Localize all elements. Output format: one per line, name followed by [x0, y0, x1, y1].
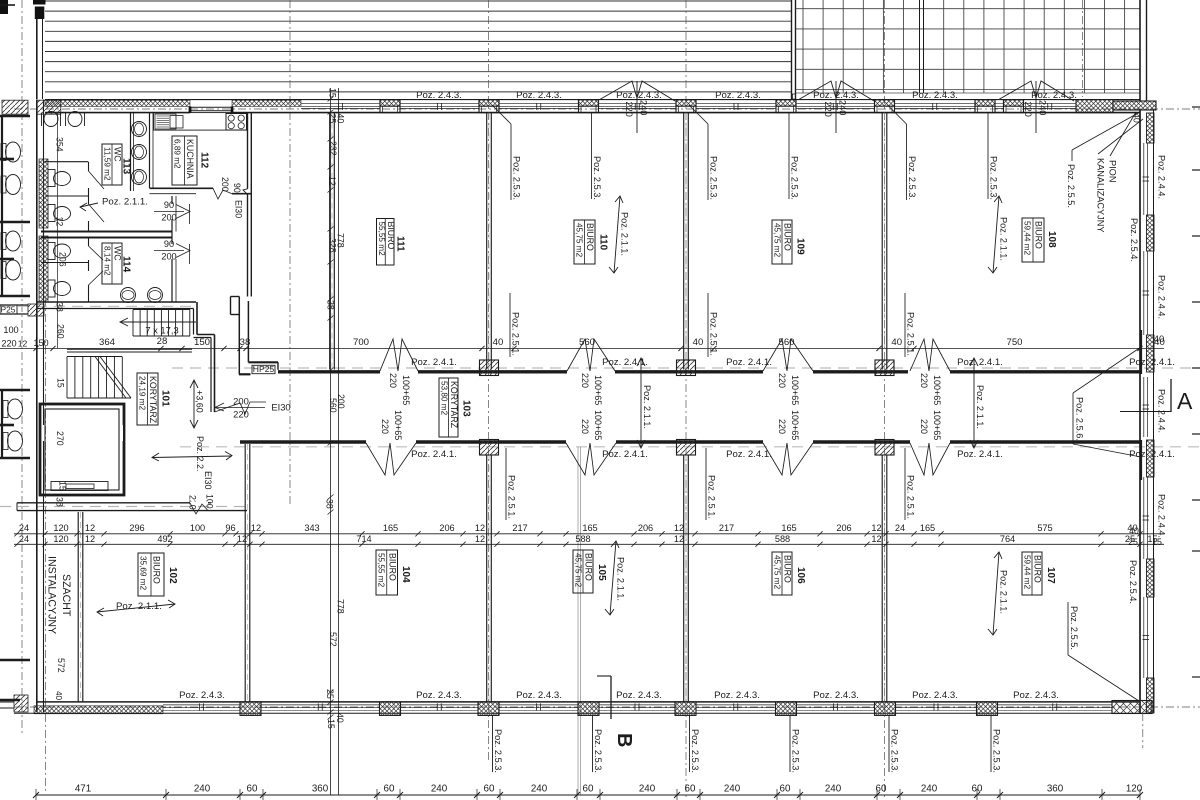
svg-text:200: 200 — [220, 177, 230, 192]
svg-text:240: 240 — [724, 784, 741, 795]
wall jog south of sanitary — [193, 309, 195, 335]
svg-text:Poz. 2.1.1.: Poz. 2.1.1. — [999, 570, 1009, 614]
svg-text:Poz. 2.4.1.: Poz. 2.4.1. — [1129, 449, 1175, 460]
north wall window glazing lines — [301, 105, 380, 107]
Poz. 2.1.1. vertical arrows in corridor — [640, 358, 642, 448]
grid axis horizontal y=707 (south wall) — [14, 706, 1200, 708]
south-east corner hatch block — [1112, 701, 1152, 714]
svg-text:Poz. 2.4.3.: Poz. 2.4.3. — [516, 690, 562, 701]
svg-text:240: 240 — [825, 784, 842, 795]
corridor axis north (grey dashed) — [172, 367, 1200, 369]
svg-text:220: 220 — [624, 102, 634, 117]
svg-text:Poz. 2.4.1.: Poz. 2.4.1. — [411, 357, 457, 368]
svg-text:112: 112 — [199, 152, 210, 169]
svg-text:Poz. 2.5.1.: Poz. 2.5.1. — [906, 312, 916, 356]
svg-text:12: 12 — [475, 523, 485, 533]
bottom dimension line — [36, 794, 1140, 796]
elevator shaft — [40, 404, 124, 495]
svg-text:217: 217 — [719, 523, 734, 533]
kitchen west wall — [149, 113, 151, 188]
window mark W3 (220/240) x=1036 — [999, 81, 1074, 101]
svg-text:24: 24 — [19, 534, 29, 544]
canopy left / grid boundary (double line) — [791, 0, 793, 100]
svg-text:EI30: EI30 — [203, 471, 213, 490]
partition wall 102/104 — [244, 444, 246, 702]
svg-text:Poz. 2.5.3.: Poz. 2.5.3. — [907, 156, 917, 200]
svg-text:KUCHNIA: KUCHNIA — [185, 139, 195, 179]
grid axis vertical x=22 — [21, 0, 23, 733]
svg-text:38: 38 — [55, 302, 65, 312]
svg-text:Poz. 2.4.1.: Poz. 2.4.1. — [411, 449, 457, 460]
grid area bottom edge — [796, 92, 1141, 94]
sanitary block south wall — [37, 301, 196, 303]
svg-text:Poz. 2.4.3.: Poz. 2.4.3. — [1013, 690, 1059, 701]
main horizontal dimension line y=348 — [0, 347, 1164, 349]
svg-text:15: 15 — [326, 719, 336, 729]
svg-text:40: 40 — [54, 691, 63, 701]
svg-text:Poz. 2.5.1.: Poz. 2.5.1. — [511, 312, 521, 356]
svg-text:220: 220 — [919, 419, 929, 434]
axis stub bottom right corner — [1142, 713, 1144, 748]
svg-text:15: 15 — [1147, 534, 1157, 544]
room 101 label KORYTARZ 24,19 m2 — [137, 373, 158, 425]
svg-text:Poz. 2.5.5.: Poz. 2.5.5. — [1069, 606, 1079, 650]
partition wall 104/105 — [486, 455, 488, 702]
partition wall 105/106 — [683, 455, 685, 702]
duct shaft strip west (dotted) — [39, 159, 48, 228]
svg-text:150: 150 — [194, 337, 210, 348]
canopy left west edge — [36, 19, 38, 99]
HP25 radiator label — [252, 365, 275, 373]
WC114 stall walls — [41, 237, 172, 239]
grid axis vertical x=290 — [289, 0, 291, 505]
section mark B — [597, 675, 611, 677]
svg-text:Poz. 2.5.3.: Poz. 2.5.3. — [989, 156, 999, 200]
svg-text:11,59 m2: 11,59 m2 — [103, 147, 112, 181]
svg-text:100: 100 — [190, 523, 205, 533]
svg-text:28: 28 — [157, 336, 168, 347]
stair flight bottom edge — [67, 397, 131, 399]
room 111 label BIURO 55,55 m2 — [377, 219, 395, 266]
svg-text:200: 200 — [161, 213, 176, 223]
svg-text:220: 220 — [580, 373, 590, 388]
south wall sill hatch west part — [34, 706, 163, 714]
svg-text:104: 104 — [400, 566, 411, 583]
chain tick marks — [328, 97, 334, 102]
grid axis vertical x=488 — [488, 0, 490, 760]
svg-text:700: 700 — [353, 337, 369, 348]
sanitary west dimension chain line — [57, 113, 59, 348]
svg-text:Poz. 2.5.6.: Poz. 2.5.6. — [1075, 397, 1085, 441]
svg-text:220: 220 — [380, 419, 390, 434]
svg-text:Poz. 2.4.3.: Poz. 2.4.3. — [912, 90, 958, 101]
Poz. 2.5.1. leaders below corridor — [505, 448, 507, 520]
svg-text:100+65: 100+65 — [790, 410, 800, 440]
svg-text:220: 220 — [919, 373, 929, 388]
svg-text:BIURO: BIURO — [584, 553, 594, 581]
svg-text:+3,60: +3,60 — [195, 390, 205, 413]
svg-text:165: 165 — [920, 523, 935, 533]
svg-text:BIURO: BIURO — [783, 555, 793, 583]
kitchen east wall (thin upper) — [247, 113, 249, 189]
corridor wall piers — [480, 360, 499, 376]
svg-text:60: 60 — [583, 784, 594, 795]
grid axis vertical x=45 — [45, 298, 47, 792]
entrance recess — [190, 106, 232, 108]
svg-text:45,75 m2: 45,75 m2 — [574, 553, 583, 588]
svg-text:53,80 m2: 53,80 m2 — [440, 381, 449, 416]
svg-text:Poz. 2.4.3.: Poz. 2.4.3. — [813, 690, 859, 701]
escape route arrow corridor 101 — [152, 456, 232, 458]
window mark W1 (220/240) x=637 — [600, 81, 675, 101]
corridor axis south (grey dashed) — [180, 446, 1200, 448]
structural wall 38 below kitchen — [238, 297, 240, 375]
svg-text:25: 25 — [325, 689, 335, 699]
wall left of room 111 — [329, 113, 331, 370]
svg-text:220: 220 — [777, 373, 787, 388]
duct shaft strip west lower (dotted) — [39, 236, 48, 302]
south wall window mullion ticks — [199, 703, 201, 710]
svg-text:45,75 m2: 45,75 m2 — [773, 555, 782, 590]
svg-text:100+65: 100+65 — [393, 410, 403, 440]
grid axis vertical x=686 — [685, 0, 687, 800]
svg-text:113: 113 — [121, 158, 132, 175]
room 110 label BIURO 45,75 m2 — [574, 220, 595, 264]
top-left column block — [33, 0, 46, 5]
WC113 washbasins — [132, 122, 147, 137]
elevator doors gap — [42, 425, 45, 441]
svg-text:KORYTARZ: KORYTARZ — [148, 376, 158, 424]
svg-text:40: 40 — [336, 114, 346, 124]
svg-text:240: 240 — [531, 784, 548, 795]
svg-text:SZACHT: SZACHT — [60, 574, 72, 617]
east wall piers — [1147, 113, 1155, 143]
svg-text:INSTALACYJNY: INSTALACYJNY — [46, 556, 58, 634]
svg-text:Poz. 2.5.4.: Poz. 2.5.4. — [1128, 560, 1138, 604]
svg-text:103: 103 — [461, 400, 472, 417]
svg-text:240: 240 — [1038, 100, 1048, 115]
stair arrow upper — [120, 321, 196, 323]
svg-text:Poz. 2.4.3.: Poz. 2.4.3. — [416, 90, 462, 101]
svg-text:60: 60 — [780, 784, 791, 795]
west annex top wall hatch — [2, 100, 28, 114]
svg-text:Poz. 2.4.3.: Poz. 2.4.3. — [179, 690, 225, 701]
room 102 label BIURO 35,69 m2 — [138, 553, 164, 596]
svg-text:220: 220 — [1023, 102, 1033, 117]
svg-text:778: 778 — [336, 599, 346, 614]
south wall window glazing — [163, 704, 240, 706]
svg-text:575: 575 — [1037, 523, 1052, 533]
svg-text:KORYTARZ: KORYTARZ — [449, 381, 459, 429]
WC113 toilet 2 — [48, 205, 55, 222]
svg-text:15: 15 — [56, 378, 66, 388]
svg-text:PION: PION — [1108, 160, 1118, 182]
svg-text:Poz. 2.4.1.: Poz. 2.4.1. — [957, 449, 1003, 460]
svg-text:BIURO: BIURO — [1033, 555, 1043, 583]
svg-text:Poz. 2.5.3.: Poz. 2.5.3. — [709, 156, 719, 200]
corridor south wall — [240, 440, 366, 443]
svg-text:100+65: 100+65 — [932, 375, 942, 405]
svg-text:260: 260 — [56, 324, 66, 339]
svg-text:Poz. 2.5.3.: Poz. 2.5.3. — [690, 729, 700, 773]
+3,60 level mark — [193, 380, 195, 428]
svg-text:120: 120 — [53, 523, 68, 533]
svg-text:B: B — [613, 733, 635, 747]
svg-text:Poz. 2.4.3.: Poz. 2.4.3. — [714, 690, 760, 701]
room 108 label BIURO 59,44 m2 — [1022, 218, 1044, 262]
svg-text:150: 150 — [33, 338, 48, 348]
svg-text:Poz. 2.4.3.: Poz. 2.4.3. — [516, 90, 562, 101]
svg-text:60: 60 — [685, 784, 696, 795]
hall east wall with doors — [171, 196, 173, 204]
svg-text:200: 200 — [161, 252, 176, 262]
svg-text:100+65: 100+65 — [593, 375, 603, 405]
svg-text:60: 60 — [384, 784, 395, 795]
svg-text:100: 100 — [3, 325, 18, 335]
svg-text:12: 12 — [475, 534, 485, 544]
edge ruler ticks right margin — [1192, 106, 1200, 108]
east wall window mullion ticks — [1143, 176, 1150, 178]
north-east corner pier — [1076, 100, 1113, 113]
svg-text:206: 206 — [836, 523, 851, 533]
WC114 stall doors — [89, 246, 104, 260]
svg-text:A: A — [1177, 388, 1193, 414]
svg-text:107: 107 — [1045, 567, 1056, 584]
svg-text:328: 328 — [328, 238, 338, 253]
svg-text:Poz. 2.4.1.: Poz. 2.4.1. — [957, 357, 1003, 368]
svg-text:Poz. 2.5.3.: Poz. 2.5.3. — [592, 156, 602, 200]
svg-text:25: 25 — [1125, 534, 1135, 544]
svg-text:24: 24 — [895, 523, 905, 533]
svg-text:Poz. 2.4.4.: Poz. 2.4.4. — [1157, 275, 1167, 319]
room 104 label BIURO 55,55 m2 — [376, 550, 398, 595]
svg-text:EI30: EI30 — [271, 402, 290, 413]
svg-text:105: 105 — [596, 564, 607, 581]
east wall inner reveal at corridor — [1140, 330, 1143, 374]
annex toilets — [1, 144, 6, 161]
east exterior wall lines — [1139, 110, 1141, 713]
svg-text:110: 110 — [598, 234, 609, 251]
svg-text:40: 40 — [1127, 523, 1137, 533]
svg-text:12: 12 — [327, 176, 337, 186]
stair lower flight — [66, 357, 68, 399]
svg-text:35,69 m2: 35,69 m2 — [139, 556, 148, 591]
svg-text:40: 40 — [1132, 113, 1142, 123]
svg-text:40: 40 — [1154, 333, 1164, 344]
svg-text:165: 165 — [582, 523, 597, 533]
svg-text:Poz. 2.5.3.: Poz. 2.5.3. — [493, 729, 503, 773]
svg-text:15: 15 — [58, 481, 68, 491]
svg-text:240: 240 — [838, 100, 848, 115]
svg-text:Poz. 2.4.4.: Poz. 2.4.4. — [1157, 155, 1167, 199]
svg-text:15: 15 — [328, 88, 338, 98]
svg-text:588: 588 — [775, 534, 790, 544]
kitchen door 90/200 EI30 — [243, 189, 248, 195]
elevator platform — [51, 482, 108, 491]
corridor north wall — [278, 370, 380, 373]
south wall outer line — [14, 712, 1152, 714]
svg-text:Poz. 2.5.3.: Poz. 2.5.3. — [992, 729, 1002, 773]
grid axis vertical x=1082 — [1082, 0, 1084, 97]
Poz. 2.1.1. arrow room 108 — [993, 196, 999, 273]
annex lower rooms — [0, 389, 30, 392]
svg-text:38: 38 — [325, 499, 335, 509]
grid axis horizontal y=109 (north wall) — [14, 108, 1200, 110]
axis of wall y=506 (grey dashed) — [0, 506, 252, 508]
svg-text:38: 38 — [326, 300, 336, 310]
svg-text:HP25: HP25 — [253, 364, 275, 374]
room 112 label KUCHNIA 6,89 m2 — [172, 136, 197, 185]
wall bottom cap at corridor west — [239, 373, 251, 375]
north-east corner return (hatched) — [1113, 101, 1156, 110]
Poz. 2.1.1. arrow room 110 — [614, 196, 620, 273]
kitchen sink unit — [155, 114, 176, 129]
svg-text:12: 12 — [674, 534, 684, 544]
svg-text:471: 471 — [75, 784, 91, 795]
door in wall above 102 — [190, 502, 208, 505]
svg-text:12: 12 — [18, 339, 28, 349]
WC 114 toilets — [48, 243, 55, 260]
north wall masonry hatch west part — [45, 100, 190, 106]
Poz. 2.5.3. leaders from north piers — [492, 105, 511, 124]
svg-text:560: 560 — [579, 337, 595, 348]
svg-text:8,14 m2: 8,14 m2 — [103, 246, 112, 276]
svg-text:100+65: 100+65 — [790, 375, 800, 405]
svg-text:100: 100 — [205, 494, 215, 509]
window mark W2 (220/240) x=836 — [799, 81, 874, 101]
svg-text:Poz. 2.5.3.: Poz. 2.5.3. — [593, 729, 603, 773]
svg-text:45,75 m2: 45,75 m2 — [773, 223, 782, 258]
svg-text:55,55 m2: 55,55 m2 — [377, 553, 386, 588]
room 106 label BIURO 45,75 m2 — [772, 552, 792, 595]
corridor door marks south wall — [366, 443, 416, 475]
partition wall 110/109 — [683, 113, 685, 370]
svg-text:Poz. 2.4.4.: Poz. 2.4.4. — [1157, 494, 1167, 538]
svg-text:Poz. 2.5.5.: Poz. 2.5.5. — [1066, 164, 1076, 208]
hatched canopy left (horizontal stripes) — [45, 1, 791, 92]
west wall hatch block at top — [37, 100, 61, 114]
svg-text:220: 220 — [388, 373, 398, 388]
svg-text:100+65: 100+65 — [401, 375, 411, 405]
svg-text:111: 111 — [395, 236, 406, 252]
kitchen stove — [226, 114, 247, 131]
svg-text:109: 109 — [795, 238, 806, 255]
svg-text:165: 165 — [383, 523, 398, 533]
door zigzag corridor west — [215, 402, 267, 414]
svg-text:Poz. 2.2.: Poz. 2.2. — [195, 436, 205, 472]
grid axis vertical x=884 — [884, 0, 886, 800]
svg-text:Poz. 2.4.3.: Poz. 2.4.3. — [715, 90, 761, 101]
svg-text:Poz. 2.5.1.: Poz. 2.5.1. — [507, 475, 517, 519]
dimension rows above bottom offices — [14, 533, 1164, 535]
measure line grey x=578 — [577, 447, 579, 795]
svg-text:220: 220 — [1, 339, 16, 349]
svg-text:BIURO: BIURO — [783, 223, 793, 251]
svg-text:12: 12 — [674, 523, 684, 533]
svg-text:55,55 m2: 55,55 m2 — [377, 222, 386, 257]
south wall piers — [240, 702, 261, 716]
svg-text:Poz. 2.5.1.: Poz. 2.5.1. — [906, 475, 916, 519]
stair upper flight — [132, 310, 134, 337]
Poz. 2.5.1. leaders above corridor — [509, 293, 511, 357]
kitchen counter — [154, 113, 247, 131]
room 109 label BIURO 45,75 m2 — [772, 220, 792, 264]
svg-text:364: 364 — [99, 337, 116, 348]
svg-text:6,89 m2: 6,89 m2 — [173, 139, 182, 169]
svg-text:360: 360 — [312, 784, 329, 795]
svg-text:572: 572 — [56, 658, 66, 673]
Poz. 2.1.1. arrow room 107 — [993, 552, 999, 635]
svg-text:EI30: EI30 — [234, 200, 244, 218]
south wall inner line — [36, 701, 1140, 703]
grid area thick divider — [919, 0, 921, 93]
svg-text:100+65: 100+65 — [593, 410, 603, 440]
svg-text:KANALIZACYJNY: KANALIZACYJNY — [1096, 158, 1106, 233]
svg-text:Poz. 2.1.1.: Poz. 2.1.1. — [642, 385, 652, 429]
svg-text:BIURO: BIURO — [585, 223, 595, 251]
svg-text:40: 40 — [493, 337, 504, 348]
svg-text:40: 40 — [891, 337, 902, 348]
svg-text:Poz. 2.1.1.: Poz. 2.1.1. — [999, 217, 1009, 261]
svg-text:12: 12 — [55, 217, 65, 227]
svg-text:240: 240 — [194, 784, 211, 795]
svg-text:Poz. 2.4.1.: Poz. 2.4.1. — [602, 449, 648, 460]
room 107 label BIURO 59,44 m2 — [1022, 552, 1042, 595]
room 113 label WC 11,59 m2 — [102, 144, 122, 185]
WC113 toilet 1 — [48, 170, 55, 187]
vertical dimension chain lines — [330, 88, 332, 795]
svg-text:108: 108 — [1046, 231, 1057, 248]
room 114 label WC 8,14 m2 — [102, 243, 122, 284]
svg-text:Poz. 2.1.1.: Poz. 2.1.1. — [975, 385, 985, 429]
svg-text:Poz. 2.5.1.: Poz. 2.5.1. — [707, 475, 717, 519]
svg-text:220: 220 — [580, 419, 590, 434]
svg-text:12: 12 — [871, 534, 881, 544]
room 105 label BIURO 45,75 m2 — [573, 550, 593, 593]
partition wall 106/107 — [881, 455, 883, 702]
svg-text:206: 206 — [58, 252, 68, 267]
annex partition walls — [0, 115, 30, 118]
wall jog to corridor start — [248, 361, 278, 363]
wall above room 102 — [17, 502, 211, 504]
svg-text:P25: P25 — [1, 304, 16, 314]
Poz. 2.5.6. leader — [1072, 393, 1074, 444]
svg-text:24: 24 — [19, 523, 29, 533]
south-west wall end hatch block — [14, 695, 28, 712]
svg-text:12: 12 — [871, 523, 881, 533]
svg-text:206: 206 — [439, 523, 454, 533]
wall sinks mounted on — [130, 113, 132, 191]
section mark A — [1120, 411, 1171, 413]
svg-text:7 x 17,3: 7 x 17,3 — [145, 325, 178, 336]
WC 113 urinals on north wall — [44, 112, 58, 127]
duct pocket niche — [231, 296, 240, 298]
annex lower toilets — [3, 401, 8, 418]
svg-text:12: 12 — [85, 523, 95, 533]
stair landing edge — [67, 348, 192, 350]
svg-text:106: 106 — [795, 567, 806, 584]
svg-text:360: 360 — [1047, 784, 1064, 795]
leaders Poz. 2.5.3. below south wall — [492, 715, 494, 772]
partition wall 109/108 — [881, 113, 883, 370]
svg-text:165: 165 — [781, 523, 796, 533]
room 103 label KORYTARZ 53,80 m2 — [439, 378, 458, 437]
svg-text:Poz. 2.4.3.: Poz. 2.4.3. — [616, 690, 662, 701]
north wall window piers — [380, 100, 400, 107]
corridor door marks north wall — [380, 339, 418, 371]
annex outer wall line — [1, 116, 3, 296]
svg-text:120: 120 — [53, 534, 68, 544]
